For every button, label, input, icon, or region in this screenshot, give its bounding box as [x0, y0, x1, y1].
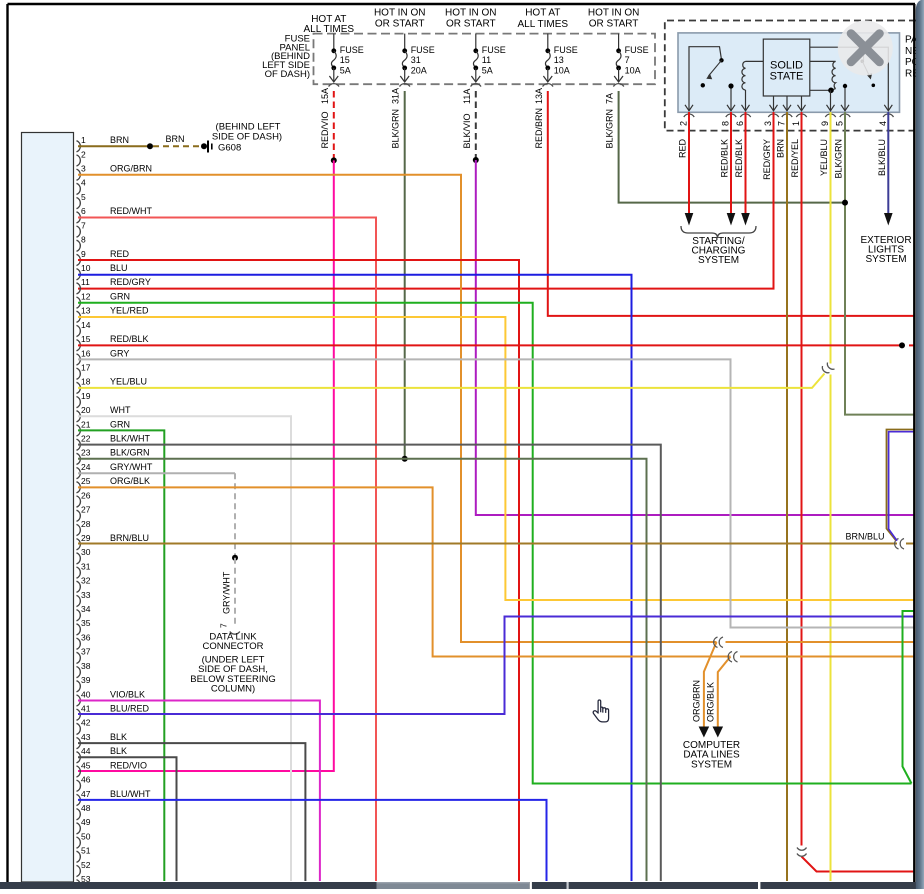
- svg-text:FUSE: FUSE: [340, 45, 364, 55]
- right page frame line: [913, 4, 915, 882]
- svg-text:G608: G608: [218, 142, 241, 153]
- svg-text:18: 18: [81, 377, 91, 387]
- svg-text:29: 29: [81, 533, 91, 543]
- relay internal: pin down-arrows at box bottom: [685, 105, 693, 111]
- svg-text:22: 22: [81, 434, 91, 444]
- svg-text:BLK/VIO: BLK/VIO: [462, 113, 472, 148]
- svg-text:40: 40: [81, 689, 91, 699]
- svg-text:HOT IN ON: HOT IN ON: [445, 8, 496, 19]
- svg-text:7: 7: [219, 623, 229, 628]
- svg-text:47: 47: [81, 789, 91, 799]
- relay pin 7 (BRN): [782, 114, 792, 117]
- relay pin 4 (BLK/BLU): [883, 114, 893, 117]
- break symbol on RED/YEL: [797, 848, 807, 851]
- svg-text:RED/BLK: RED/BLK: [734, 139, 744, 178]
- svg-text:BLK: BLK: [110, 746, 127, 756]
- svg-text:32: 32: [81, 576, 91, 586]
- wire: pin 13 YEL/RED right, down, right to edge: [78, 317, 914, 600]
- break symbol on BRN/BLU: [895, 539, 899, 550]
- svg-text:RED/YEL: RED/YEL: [790, 139, 800, 178]
- wire: RED/VIO net: fuse F1 down to pin 45: [78, 160, 334, 771]
- svg-text:15: 15: [340, 55, 350, 65]
- relay pin 5 (BLK/GRN): [840, 114, 850, 117]
- svg-text:ORG/BRN: ORG/BRN: [110, 164, 152, 174]
- svg-text:31: 31: [411, 55, 421, 65]
- svg-text:BLK/GRN: BLK/GRN: [834, 139, 844, 179]
- wire: pin 21 GRN right then down: [78, 430, 164, 881]
- svg-text:BLK/WHT: BLK/WHT: [110, 434, 151, 444]
- svg-text:RED/GRY: RED/GRY: [110, 277, 151, 287]
- svg-text:BRN: BRN: [165, 134, 184, 144]
- svg-text:RED: RED: [110, 249, 130, 259]
- wire: pin 25 ORG/BLK long route to computer data lines: [78, 487, 731, 656]
- left connector C1 (blue box): [22, 133, 74, 883]
- svg-text:10: 10: [81, 263, 91, 273]
- svg-text:3: 3: [763, 121, 773, 126]
- relay dashed outline box: [665, 21, 916, 131]
- relay pin 6 (RED/BLK): [740, 114, 750, 117]
- relay pin 8 (RED/BLK): [726, 114, 736, 117]
- svg-text:48: 48: [81, 803, 91, 813]
- svg-text:20A: 20A: [411, 66, 427, 76]
- svg-text:34: 34: [81, 604, 91, 614]
- wire: relay pin 2 RED to starting/charging: [688, 112, 690, 214]
- wire: fuse F2 BLK/GRN down to junction with pin 23: [404, 91, 406, 459]
- svg-text:OF DASH): OF DASH): [265, 69, 310, 80]
- ground symbol G608: [207, 141, 209, 153]
- svg-text:OR START: OR START: [446, 19, 496, 30]
- svg-text:7: 7: [777, 121, 787, 126]
- splice dot on RED/VIO: [331, 157, 337, 163]
- svg-text:15A: 15A: [320, 88, 330, 104]
- svg-text:HOT IN ON: HOT IN ON: [588, 8, 639, 19]
- svg-text:19: 19: [81, 391, 91, 401]
- relay internal: pin 8 contact: [730, 87, 732, 111]
- svg-text:45: 45: [81, 760, 91, 770]
- svg-text:GRY/WHT: GRY/WHT: [110, 462, 153, 472]
- wire: pin 12 GRN right, down, then right to edge: [78, 303, 912, 784]
- svg-text:FUSE: FUSE: [411, 45, 435, 55]
- wire: pin 41 BLU/RED right, up, right to edge: [78, 617, 914, 715]
- relay pin 9 (YEL/BLU): [825, 114, 835, 117]
- svg-text:ALL TIMES: ALL TIMES: [518, 19, 569, 30]
- svg-text:31A: 31A: [391, 88, 401, 104]
- svg-text:RED/BLK: RED/BLK: [110, 334, 149, 344]
- svg-text:20: 20: [81, 405, 91, 415]
- wire: relay pin 1 RED/YEL down with break, then to right edge: [801, 112, 803, 846]
- svg-text:BLU/WHT: BLU/WHT: [110, 789, 151, 799]
- svg-text:7: 7: [81, 220, 86, 230]
- relay internal: pins 3,7,1 stubs: [773, 96, 775, 111]
- relay pin 2 (RED): [684, 114, 694, 117]
- svg-text:BRN/BLU: BRN/BLU: [110, 533, 149, 543]
- relay internal: coil 1 (pin 6): [745, 90, 747, 111]
- svg-text:12: 12: [81, 291, 91, 301]
- svg-text:RED/BRN: RED/BRN: [534, 108, 544, 149]
- wire: fuse F1 RED/VIO dashed segment: [333, 91, 335, 160]
- svg-text:GRY: GRY: [110, 348, 129, 358]
- svg-text:1: 1: [791, 121, 801, 126]
- svg-text:BRN: BRN: [110, 135, 129, 145]
- mouse cursor (hand): [593, 700, 608, 722]
- svg-text:31: 31: [81, 561, 91, 571]
- svg-text:BLK/GRN: BLK/GRN: [605, 109, 615, 149]
- svg-text:YEL/RED: YEL/RED: [110, 306, 149, 316]
- svg-text:RED/BLK: RED/BLK: [720, 139, 730, 178]
- break symbol on ORG/BLK: [728, 652, 732, 663]
- svg-text:11: 11: [482, 55, 491, 65]
- wire: pin 47 BLU/WHT right then down: [78, 800, 547, 881]
- svg-text:GRN: GRN: [110, 291, 130, 301]
- svg-text:RED/VIO: RED/VIO: [320, 111, 330, 148]
- relay internal: right switch + pin 4: [810, 47, 888, 111]
- relay internal: left switch (pin 2): [689, 47, 721, 111]
- svg-text:28: 28: [81, 519, 91, 529]
- svg-text:6: 6: [81, 206, 86, 216]
- svg-text:33: 33: [81, 590, 91, 600]
- svg-text:ORG/BLK: ORG/BLK: [110, 476, 150, 486]
- svg-text:FUSE: FUSE: [482, 45, 506, 55]
- svg-text:50: 50: [81, 831, 91, 841]
- wire: relay pin 4 BLK/BLU to exterior lights: [887, 112, 889, 214]
- svg-text:YEL/BLU: YEL/BLU: [110, 377, 147, 387]
- svg-text:BLK/GRN: BLK/GRN: [110, 448, 150, 458]
- svg-text:5: 5: [81, 192, 86, 202]
- svg-text:BLU/RED: BLU/RED: [110, 704, 150, 714]
- off-page BRN+BLU two-tone wire from right edge: [887, 430, 915, 541]
- svg-text:16: 16: [81, 348, 91, 358]
- wire: fuse F4 RED/BRN down then right to edge: [548, 91, 914, 316]
- svg-text:RED/WHT: RED/WHT: [110, 206, 152, 216]
- ORG/BRN splice diagonal down to arrow: [704, 642, 717, 728]
- svg-text:VIO/BLK: VIO/BLK: [110, 689, 145, 699]
- relay internal: solid-state block U1: [763, 39, 810, 96]
- svg-text:BRN/BLU: BRN/BLU: [845, 532, 884, 542]
- svg-text:27: 27: [81, 505, 91, 515]
- svg-text:SYSTEM: SYSTEM: [698, 255, 739, 266]
- svg-text:BLK/GRN: BLK/GRN: [391, 109, 401, 149]
- svg-text:43: 43: [81, 732, 91, 742]
- svg-text:OR START: OR START: [375, 19, 425, 30]
- relay pin 3 (RED/GRY): [768, 114, 778, 117]
- svg-text:2: 2: [679, 121, 689, 126]
- svg-text:ORG/BLK: ORG/BLK: [705, 682, 715, 722]
- svg-text:ALL TIMES: ALL TIMES: [304, 24, 355, 35]
- svg-text:5A: 5A: [340, 66, 351, 76]
- svg-text:STATE: STATE: [770, 70, 804, 82]
- wire: pin 24 GRY/WHT to data link connector: [78, 472, 235, 474]
- svg-text:FUSE: FUSE: [625, 45, 649, 55]
- svg-text:36: 36: [81, 632, 91, 642]
- svg-text:ORG/BRN: ORG/BRN: [691, 680, 701, 722]
- data link connector pin 7 arc: [230, 632, 240, 635]
- svg-text:15: 15: [81, 334, 91, 344]
- svg-text:39: 39: [81, 675, 91, 685]
- svg-text:3: 3: [81, 164, 86, 174]
- svg-text:FUSE: FUSE: [554, 45, 578, 55]
- page frame border: [8, 3, 916, 5]
- green wire from right edge (exterior loop): [903, 611, 915, 784]
- junction dot BLK/GRN: [402, 456, 408, 462]
- svg-text:14: 14: [81, 320, 91, 330]
- wire: pin 29 BRN/BLU across to break at right: [78, 543, 897, 545]
- wire: pin 23 BLK/GRN right then down: [78, 459, 647, 881]
- svg-text:42: 42: [81, 718, 91, 728]
- wire: fuse F3 BLK/VIO dashed segment: [475, 91, 477, 160]
- svg-text:7A: 7A: [605, 93, 615, 104]
- wire: relay pin 7 BRN down to bottom: [786, 112, 788, 881]
- svg-text:COLUMN): COLUMN): [211, 684, 255, 695]
- wire: pin 3 ORG/BRN long route to computer data lines: [78, 175, 717, 642]
- wire: relay pin 9 YEL/BLU down to bottom with splice from pin 18: [830, 112, 832, 364]
- brace under starting/charging arrows: [681, 226, 756, 238]
- splice dot on BLK/VIO: [473, 157, 479, 163]
- svg-text:RED/VIO: RED/VIO: [110, 760, 147, 770]
- svg-text:37: 37: [81, 647, 91, 657]
- svg-text:13: 13: [554, 55, 564, 65]
- svg-text:RED: RED: [678, 139, 688, 159]
- wire: pin 9 RED right then down to bottom: [78, 260, 519, 881]
- wire: relay pin 6 RED/BLK: [745, 112, 747, 214]
- svg-text:BLK/BLU: BLK/BLU: [877, 139, 887, 176]
- svg-text:1: 1: [81, 135, 86, 145]
- svg-text:35: 35: [81, 618, 91, 628]
- svg-text:51: 51: [81, 846, 91, 856]
- svg-text:25: 25: [81, 476, 91, 486]
- svg-text:GRY/WHT: GRY/WHT: [222, 571, 232, 614]
- svg-text:49: 49: [81, 817, 91, 827]
- wire: pin 1 BRN to ground G608: [78, 145, 150, 147]
- wire: fuse F5 BLK/GRN down then right to relay pin 5 junction: [619, 91, 845, 203]
- svg-text:HOT AT: HOT AT: [525, 8, 560, 19]
- svg-text:SIDE OF DASH): SIDE OF DASH): [212, 131, 282, 142]
- svg-text:WHT: WHT: [110, 405, 131, 415]
- wire: pin 10 BLU right then down to bottom: [78, 275, 632, 881]
- svg-text:7: 7: [625, 55, 630, 65]
- svg-text:21: 21: [81, 419, 91, 429]
- svg-text:44: 44: [81, 746, 91, 756]
- wire: pin 40 VIO/BLK right then down: [78, 701, 320, 882]
- wire: pin 20 WHT right then down: [78, 416, 291, 881]
- connector pins 1-53 arcs and numbers: [77, 141, 81, 152]
- svg-text:23: 23: [81, 448, 91, 458]
- svg-text:24: 24: [81, 462, 91, 472]
- svg-text:41: 41: [81, 704, 91, 714]
- junction dot with fuse F5 wire: [842, 200, 848, 206]
- svg-text:13A: 13A: [534, 88, 544, 104]
- svg-text:11: 11: [81, 277, 90, 287]
- svg-text:8: 8: [721, 121, 731, 126]
- svg-text:11A: 11A: [462, 89, 472, 104]
- break symbol on YEL/BLU: [822, 366, 829, 373]
- svg-text:YEL/BLU: YEL/BLU: [819, 139, 829, 176]
- svg-text:9: 9: [820, 121, 830, 126]
- relay pin 1 (RED/YEL): [796, 114, 806, 117]
- svg-text:BRN: BRN: [776, 139, 786, 158]
- svg-text:17: 17: [81, 362, 91, 372]
- wire: relay pin 5 BLK/GRN down then right to edge: [845, 112, 914, 415]
- svg-text:6: 6: [735, 121, 745, 126]
- svg-text:46: 46: [81, 775, 91, 785]
- break symbol on ORG/BRN: [714, 637, 718, 648]
- svg-text:30: 30: [81, 547, 91, 557]
- svg-text:SYSTEM: SYSTEM: [865, 254, 906, 265]
- svg-text:OR START: OR START: [589, 19, 639, 30]
- close (X) button overlay: [838, 21, 893, 76]
- wire: pin 22 BLK/WHT right then down: [78, 445, 661, 881]
- svg-text:38: 38: [81, 661, 91, 671]
- svg-text:SYSTEM: SYSTEM: [691, 759, 732, 770]
- wire: relay pin 3 RED/GRY down and left to pin 11: [78, 112, 774, 289]
- svg-text:13: 13: [81, 306, 91, 316]
- svg-text:9: 9: [81, 249, 86, 259]
- svg-text:10A: 10A: [625, 66, 641, 76]
- svg-text:BLU: BLU: [110, 263, 128, 273]
- wire: pin 44 BLK right then down: [78, 757, 177, 881]
- svg-text:5A: 5A: [482, 66, 493, 76]
- wire: pin 18 YEL/BLU right then diagonal splice to relay pin 9 wire: [78, 374, 825, 388]
- svg-text:HOT IN ON: HOT IN ON: [374, 8, 425, 19]
- wire: relay pin 8 RED/BLK: [730, 112, 732, 214]
- fuse panel dashed box: [314, 34, 656, 85]
- svg-text:GRN: GRN: [110, 419, 130, 429]
- wire: BLK/VIO violet run to right edge: [476, 160, 914, 515]
- svg-text:4: 4: [878, 121, 888, 126]
- relay body (light blue): [678, 33, 900, 112]
- svg-text:8: 8: [81, 235, 86, 245]
- relay internal: pin 5 contact: [844, 87, 846, 111]
- svg-text:26: 26: [81, 490, 91, 500]
- svg-text:4: 4: [81, 178, 86, 188]
- svg-text:5: 5: [835, 121, 845, 126]
- svg-text:CONNECTOR: CONNECTOR: [202, 641, 263, 652]
- svg-text:10A: 10A: [554, 66, 570, 76]
- svg-text:RED/GRY: RED/GRY: [762, 139, 772, 180]
- wire: pin 6 RED/WHT right then down to bottom: [78, 218, 376, 882]
- relay internal: coil 2 + pin 9: [810, 60, 836, 62]
- svg-text:BLK: BLK: [110, 732, 127, 742]
- wire: pin 15 RED/BLK across to right edge: [78, 344, 902, 346]
- wire: pin 16 GRY right, down, right to edge: [78, 359, 914, 627]
- svg-text:52: 52: [81, 860, 91, 870]
- bottom horizontal scrollbar: [0, 882, 924, 889]
- wire: pin 43 BLK right then down: [78, 743, 305, 881]
- svg-text:2: 2: [81, 149, 86, 159]
